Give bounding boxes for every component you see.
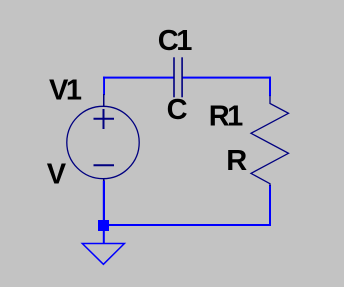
svg-text:V: V [47, 158, 67, 190]
voltage source V1 lead bottom [103, 178, 105, 181]
svg-text:R1: R1 [209, 100, 243, 132]
wire source bottom vertical [103, 181, 105, 221]
junction node square [98, 220, 109, 231]
svg-text:C1: C1 [158, 25, 192, 57]
wire top-left horizontal (node top) [103, 77, 174, 79]
svg-text:C: C [167, 94, 188, 126]
wire bottom horizontal [103, 224, 271, 226]
capacitor C1 left plate [173, 57, 175, 97]
wire resistor bottom vertical [269, 185, 271, 226]
wire left vertical drop to source [103, 77, 105, 96]
svg-text:V1: V1 [49, 75, 82, 107]
voltage source minus sign [94, 164, 115, 166]
capacitor C1 right plate [181, 57, 183, 97]
svg-text:R: R [226, 145, 247, 177]
voltage source V1 lead top [103, 94, 105, 106]
voltage source plus sign [94, 109, 115, 129]
voltage source V1 circle [67, 106, 139, 178]
wire ground stub [103, 231, 105, 244]
wire right vertical to resistor top [269, 77, 271, 97]
ground symbol [82, 244, 124, 265]
resistor R1 zigzag [251, 96, 289, 187]
wire top-right horizontal [183, 77, 272, 79]
